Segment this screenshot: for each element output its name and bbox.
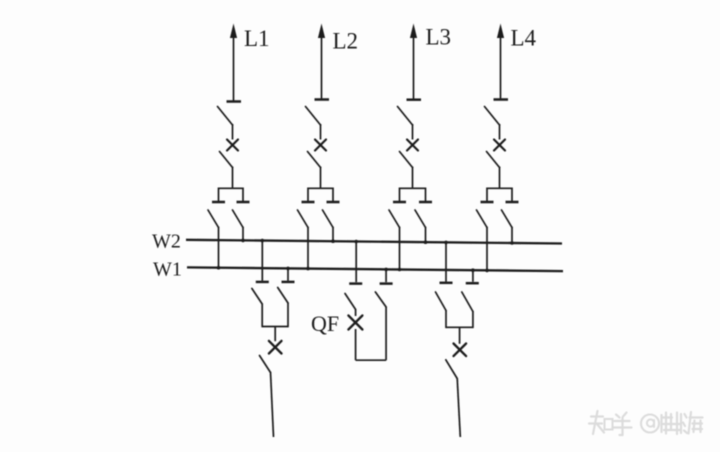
- left incomer contact bar left: [256, 281, 269, 284]
- wire: [459, 327, 461, 344]
- wire right incomer drop from W1: [472, 270, 474, 282]
- junction feeder L3 on W2: [424, 240, 428, 244]
- left incomer contact bar right: [282, 281, 295, 284]
- feeder L3 upper fixed contact bar: [407, 98, 422, 101]
- junction tie on W2: [354, 240, 358, 244]
- bus-tie circuit breaker QF (x symbol): [348, 316, 362, 330]
- feeder L3 disconnector QS blade (upper): [398, 107, 413, 126]
- wire tie U bottom: [356, 359, 387, 361]
- wire feeder L3 drop to bus W1: [399, 227, 401, 270]
- feeder L3 bus selector frame: [400, 188, 426, 201]
- feeder L2 upper fixed contact bar: [315, 98, 330, 101]
- junction feeder L4 on W1: [485, 269, 489, 273]
- feeder L3 selector contact bar left: [393, 201, 406, 204]
- wire: [355, 329, 357, 360]
- left incomer disconnector blade right: [278, 288, 288, 304]
- right incomer contact bar right: [466, 282, 479, 285]
- wire: [287, 303, 289, 328]
- right incomer contact bar left: [440, 282, 453, 285]
- wire joining U bottom: [262, 326, 288, 328]
- feeder L2 outgoing arrow: [318, 24, 325, 100]
- left incomer disconnector blade lower: [260, 356, 271, 373]
- feeder L3 bus disconnector blade to W1: [389, 210, 400, 228]
- feeder L3 bus disconnector blade to W2: [415, 210, 426, 228]
- feeder L1 bus disconnector blade to W2: [233, 210, 244, 228]
- svg-text:QF: QF: [311, 311, 339, 336]
- feeder L3 selector contact bar right: [419, 201, 432, 204]
- feeder L2 selector contact bar right: [327, 201, 340, 204]
- wire: [232, 167, 234, 189]
- watermark glyph hu: [613, 413, 632, 436]
- junction right incomer on W1: [471, 268, 475, 272]
- feeder L3 circuit breaker (x symbol): [407, 140, 418, 151]
- busbar W1: [187, 267, 563, 271]
- wire feeder L4 drop to bus W1: [486, 227, 488, 271]
- tie disconnector blade right: [375, 292, 386, 307]
- feeder L1 disconnector blade (lower): [220, 152, 233, 168]
- feeder L2 bus disconnector blade to W2: [323, 210, 334, 228]
- wire tie drop from W2: [355, 242, 357, 283]
- wire feeder L2 drop to bus W2: [332, 227, 334, 241]
- wire left incomer tail: [271, 372, 274, 437]
- wire: [320, 167, 322, 189]
- wire: [232, 124, 234, 140]
- wire: [499, 167, 501, 189]
- junction right incomer on W2: [444, 241, 448, 245]
- wire: [274, 327, 276, 342]
- tie contact bar left: [349, 282, 362, 285]
- junction feeder L2 on W1: [306, 267, 310, 271]
- wire tie drop from W1: [385, 269, 387, 282]
- junction feeder L3 on W1: [398, 268, 402, 272]
- feeder L1 selector contact bar left: [212, 201, 225, 204]
- wire feeder L2 drop to bus W1: [307, 227, 309, 269]
- wire: [445, 310, 447, 328]
- junction left incomer on W1: [286, 267, 290, 271]
- right incomer disconnector blade right: [462, 292, 473, 312]
- left incomer disconnector blade left: [252, 289, 262, 305]
- wire feeder L4 drop to bus W2: [511, 227, 513, 243]
- watermark at-sign: [641, 415, 659, 433]
- feeder L4 selector contact bar right: [506, 201, 519, 204]
- junction tie on W1: [384, 268, 388, 272]
- wire: [385, 307, 387, 361]
- feeder L4 bus disconnector blade to W2: [502, 210, 513, 228]
- junction feeder L1 on W2: [241, 239, 245, 243]
- wire feeder L3 drop to bus W2: [425, 227, 427, 242]
- wire: [412, 124, 414, 140]
- svg-text:W2: W2: [152, 231, 181, 253]
- svg-text:L4: L4: [511, 26, 537, 51]
- junction feeder L2 on W2: [331, 239, 335, 243]
- svg-text:L2: L2: [333, 29, 359, 54]
- tie contact bar right: [380, 282, 393, 285]
- feeder L2 bus disconnector blade to W1: [298, 210, 309, 228]
- feeder L4 bus selector frame: [487, 188, 512, 201]
- feeder L1 selector contact bar right: [237, 201, 250, 204]
- feeder L2 bus selector frame: [308, 188, 333, 201]
- junction feeder L1 on W1: [217, 266, 221, 270]
- feeder L1 circuit breaker (x symbol): [227, 140, 238, 151]
- feeder L3 outgoing arrow: [410, 24, 417, 100]
- junction feeder L4 on W2: [510, 241, 514, 245]
- feeder L1 disconnector QS blade (upper): [218, 107, 233, 126]
- wire: [412, 167, 414, 189]
- wire left incomer drop from W1: [287, 268, 289, 280]
- right incomer circuit breaker (x symbol): [454, 344, 467, 357]
- feeder L2 disconnector blade (lower): [308, 152, 321, 168]
- right incomer disconnector blade lower: [446, 360, 457, 379]
- feeder L4 disconnector blade (lower): [487, 152, 500, 168]
- left incomer circuit breaker (x symbol): [269, 341, 282, 354]
- svg-text:L1: L1: [244, 26, 270, 51]
- tie disconnector blade left: [345, 294, 356, 310]
- wire: [472, 311, 474, 328]
- feeder L4 circuit breaker (x symbol): [494, 140, 505, 151]
- feeder L2 selector contact bar left: [302, 201, 315, 204]
- busbar W2: [186, 240, 562, 244]
- wire: [499, 124, 501, 140]
- wire right incomer tail: [457, 378, 460, 437]
- feeder L4 selector contact bar left: [481, 201, 494, 204]
- feeder L1 outgoing arrow: [230, 24, 237, 102]
- right incomer disconnector blade left: [436, 292, 447, 311]
- wire feeder L1 drop to bus W1: [218, 227, 220, 268]
- feeder L1 bus selector frame: [219, 188, 244, 201]
- feeder L2 circuit breaker (x symbol): [315, 140, 326, 151]
- wire feeder L1 drop to bus W2: [242, 227, 244, 241]
- feeder L4 outgoing arrow: [497, 24, 504, 100]
- watermark glyph hai: [683, 412, 703, 434]
- wire right incomer drop from W2: [445, 242, 447, 281]
- wire left incomer drop from W2: [261, 241, 263, 281]
- wire: [320, 124, 322, 140]
- wire right incomer U bottom: [446, 326, 473, 328]
- watermark glyph zhi: [589, 411, 613, 434]
- svg-text:W1: W1: [153, 259, 182, 281]
- feeder L1 bus disconnector blade to W1: [208, 210, 219, 228]
- feeder L4 bus disconnector blade to W1: [477, 210, 488, 228]
- feeder L3 disconnector blade (lower): [400, 152, 413, 168]
- junction left incomer on W2: [261, 239, 265, 243]
- feeder L4 upper fixed contact bar: [494, 98, 509, 101]
- wire: [261, 304, 263, 328]
- feeder L4 disconnector QS blade (upper): [485, 107, 500, 126]
- feeder L1 upper fixed contact bar: [227, 100, 242, 103]
- feeder L2 disconnector QS blade (upper): [306, 107, 321, 126]
- wire: [355, 309, 357, 316]
- watermark glyph han: [662, 413, 682, 435]
- svg-text:L3: L3: [426, 25, 452, 50]
